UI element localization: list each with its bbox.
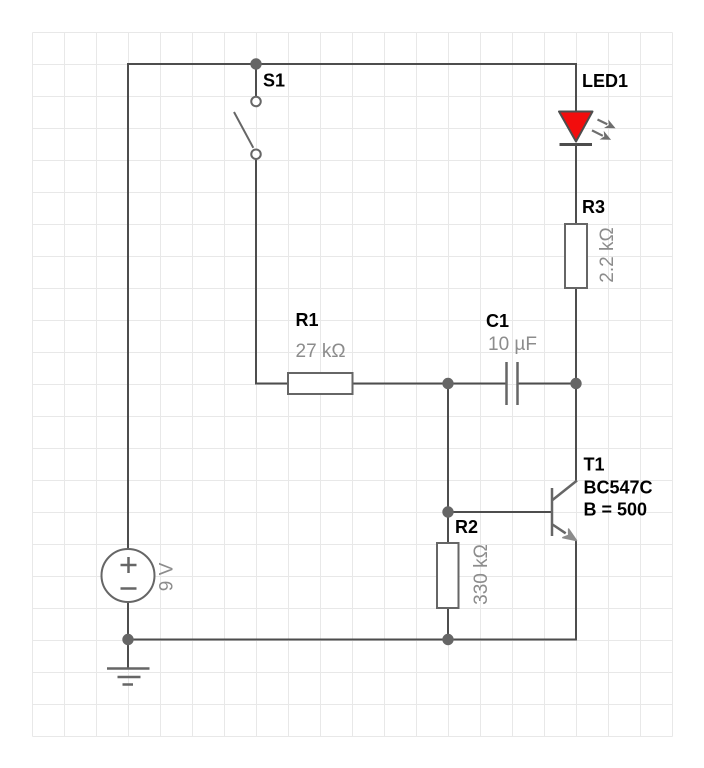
wire R3 bottom terminal to node B: [575, 288, 577, 384]
node C junction base/R2: [442, 506, 453, 517]
wire node B down to T1 collector: [575, 384, 577, 482]
wire T1 emitter down to bottom rail: [575, 540, 577, 641]
resistor R3: [565, 224, 587, 288]
wire node A to capacitor C1 left plate: [448, 383, 506, 385]
svg-text:R1: R1: [296, 310, 319, 330]
wire node C down to R2 top terminal: [447, 512, 449, 543]
svg-text:B = 500: B = 500: [584, 500, 648, 520]
svg-text:R2: R2: [455, 517, 478, 537]
wire top rail from battery + to LED branch: [128, 63, 576, 65]
wire top rail junction to switch S1 top terminal: [255, 64, 257, 96]
transistor T1: [552, 481, 577, 541]
svg-text:LED1: LED1: [582, 71, 628, 91]
svg-text:10 µF: 10 µF: [488, 334, 537, 355]
resistor R1: [288, 373, 353, 394]
node B junction C1/R3/collector: [570, 378, 581, 389]
svg-text:C1: C1: [486, 311, 509, 331]
svg-text:27 kΩ: 27 kΩ: [296, 341, 346, 362]
wire left rail from top rail down to battery + terminal: [127, 63, 129, 549]
svg-text:2.2 kΩ: 2.2 kΩ: [597, 227, 618, 282]
capacitor C1: [507, 362, 518, 405]
wire node C to T1 base: [448, 511, 552, 513]
node junction R2 bottom rail: [442, 634, 453, 645]
wire top rail corner down to LED1 anode: [575, 63, 577, 112]
svg-text:9 V: 9 V: [157, 562, 178, 591]
resistor R2: [437, 543, 459, 608]
wire R2 bottom terminal to bottom rail node: [447, 608, 449, 641]
svg-text:330 kΩ: 330 kΩ: [471, 544, 492, 605]
wire ground node to ground symbol: [127, 640, 129, 669]
node junction at S1 top: [250, 58, 261, 69]
ground: [107, 669, 150, 685]
wire LED1 cathode down to R3 top terminal: [575, 144, 577, 224]
LED1: [559, 112, 615, 145]
svg-text:R3: R3: [582, 197, 605, 217]
switch S1: [234, 97, 261, 159]
node junction battery/ground: [122, 634, 133, 645]
wire R1 right terminal to node A: [353, 383, 449, 385]
battery V1 9V source: [102, 549, 155, 602]
wire switch S1 bottom terminal down and right to R1: [256, 159, 288, 384]
svg-text:S1: S1: [263, 71, 285, 91]
wire capacitor C1 right plate to node B: [518, 383, 576, 385]
svg-text:T1: T1: [584, 455, 605, 475]
node A junction R1/C1/base branch: [442, 378, 453, 389]
wire battery - terminal to ground node: [127, 602, 129, 641]
wire node A down to node C at base branch: [447, 384, 449, 513]
svg-text:BC547C: BC547C: [584, 478, 653, 498]
wire bottom rail from ground node to emitter branch: [128, 639, 576, 641]
